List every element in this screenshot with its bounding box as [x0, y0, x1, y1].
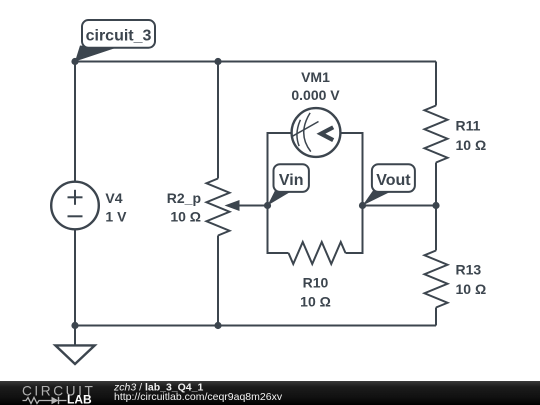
wire right vertical middle [435, 163, 437, 251]
wire Vout to right rail [363, 205, 437, 207]
node Vout [359, 202, 366, 209]
node bottom-left [71, 322, 78, 329]
ground [55, 345, 94, 364]
flag Vout [363, 164, 415, 205]
node top-middle [214, 58, 221, 65]
resistor R10 [289, 242, 346, 264]
resistor R13 [425, 251, 448, 308]
svg-text:R10: R10 [303, 275, 329, 291]
svg-text:10 Ω: 10 Ω [300, 294, 331, 310]
wire wiper horizontal [238, 205, 268, 207]
wire top horizontal [75, 61, 436, 63]
wire voltmeter right lead [341, 133, 363, 206]
svg-text:Vout: Vout [376, 172, 411, 189]
node Vin [264, 202, 271, 209]
svg-text:http://circuitlab.com/ceqr9aq8: http://circuitlab.com/ceqr9aq8m26xv [114, 391, 283, 403]
wiper arrow of R2_p [225, 200, 240, 211]
svg-text:LAB: LAB [67, 393, 92, 405]
svg-text:R11: R11 [456, 117, 481, 133]
wire left vertical lower [74, 229, 76, 326]
footer bar [0, 381, 540, 405]
svg-text:Vin: Vin [279, 172, 304, 189]
svg-text:R2_p: R2_p [167, 190, 201, 206]
node bottom-middle [214, 322, 221, 329]
wire right vertical lower [435, 308, 437, 326]
node top-left [71, 58, 78, 65]
wire R10 right branch [346, 206, 363, 254]
wire left vertical upper [74, 62, 76, 183]
svg-text:10 Ω: 10 Ω [456, 137, 487, 153]
svg-text:circuit_3: circuit_3 [86, 27, 152, 44]
svg-text:0.000 V: 0.000 V [291, 87, 340, 103]
svg-text:VM1: VM1 [301, 69, 330, 85]
wire voltmeter left lead [268, 133, 292, 206]
node right rail [432, 202, 439, 209]
voltmeter VM1 [292, 108, 341, 157]
wire R10 branch [268, 206, 289, 254]
flag Vin [268, 164, 309, 205]
footer logo resistor zigzag [23, 398, 52, 404]
wire middle vertical upper [217, 62, 219, 179]
svg-text:10 Ω: 10 Ω [170, 208, 201, 224]
flag circuit_3 [75, 20, 155, 62]
svg-text:V4: V4 [105, 190, 122, 206]
resistor R2_p [207, 179, 230, 236]
wire middle vertical lower [217, 236, 219, 326]
resistor R11 [425, 106, 448, 163]
svg-text:R13: R13 [456, 262, 482, 278]
svg-text:1 V: 1 V [105, 209, 127, 225]
wire right vertical upper [435, 62, 437, 106]
wire bottom horizontal [75, 325, 436, 327]
wire ground stem [74, 326, 76, 346]
footer logo diode [52, 397, 59, 404]
voltage source V4 [51, 182, 99, 230]
svg-text:10 Ω: 10 Ω [456, 281, 487, 297]
